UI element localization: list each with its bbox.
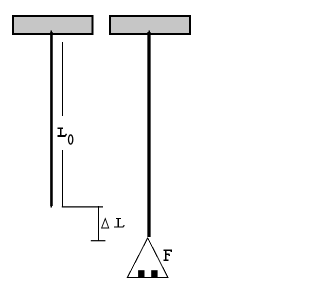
delta-L vertical line — [98, 206, 100, 241]
delta-L bottom tick — [91, 240, 106, 242]
weight square right — [151, 270, 157, 277]
left ceiling support — [13, 16, 93, 34]
L0 measurement line lower segment — [62, 150, 64, 207]
left wire (unstretched) — [50, 30, 52, 207]
label F — [163, 250, 172, 261]
right ceiling support — [110, 16, 190, 34]
label delta L — [102, 218, 125, 228]
L0 measurement line upper segment — [62, 42, 64, 116]
right wire (stretched) — [148, 30, 150, 237]
label L0 — [58, 128, 73, 144]
weight triangle — [127, 238, 168, 278]
bracket horizontal line at unstretched level — [62, 206, 103, 208]
weight square left — [138, 270, 144, 277]
